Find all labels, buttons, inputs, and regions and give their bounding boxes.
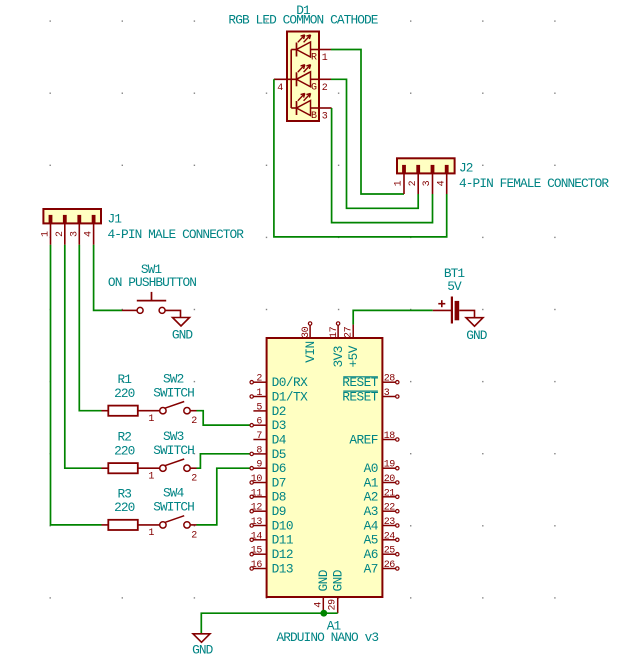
wire BT1 to GND (459, 310, 474, 317)
svg-text:ARDUINO NANO v3: ARDUINO NANO v3 (276, 630, 378, 645)
resistor R2 body (108, 463, 138, 473)
svg-text:5V: 5V (447, 279, 462, 294)
switch SW2 symbol (148, 402, 197, 428)
svg-text:22: 22 (384, 503, 396, 514)
MCU A1 pin 16 (D13) left side (250, 560, 293, 576)
GND label bottom left (192, 642, 214, 657)
svg-text:A4: A4 (364, 518, 379, 533)
battery BT1 symbol (433, 297, 460, 324)
svg-text:2: 2 (408, 180, 419, 186)
connector J1 pin 2 (55, 215, 67, 245)
svg-text:D10: D10 (272, 518, 293, 533)
MCU A1 body (267, 338, 383, 597)
MCU A1 pin 4 (GND) bottom (313, 569, 331, 613)
MCU A1 pin 6 (D3) left side (250, 417, 286, 433)
switch SW1 reference label (141, 262, 163, 277)
svg-text:D1/TX: D1/TX (272, 389, 309, 404)
svg-text:A0: A0 (364, 461, 378, 476)
ground symbol below BT1 (466, 318, 483, 327)
resistor R2 reference label (118, 430, 132, 445)
connector J2 pin 3 (422, 165, 434, 194)
svg-text:20: 20 (384, 474, 396, 485)
connector J2 value label (459, 176, 609, 191)
resistor R1 body (108, 406, 138, 416)
MCU A1 pin 30 (VIN) top (301, 322, 318, 363)
wire SW2 to A1 D3 (197, 411, 250, 425)
MCU A1 pin 20 (A1) right side (364, 474, 399, 490)
svg-text:4: 4 (84, 231, 95, 237)
connector J1 pin 4 (84, 215, 96, 245)
ground symbol bottom left (193, 634, 210, 643)
LED D1 common cathode bus (290, 50, 292, 109)
wire SW3 to A1 D5 (197, 454, 250, 468)
svg-text:27: 27 (343, 326, 354, 338)
connector J1 pin 1 (41, 215, 53, 245)
svg-text:7: 7 (256, 431, 262, 442)
switch SW1 value label (108, 275, 196, 290)
svg-text:24: 24 (384, 531, 396, 542)
MCU A1 value label (276, 630, 378, 645)
svg-text:D0/RX: D0/RX (272, 375, 309, 390)
svg-text:ON PUSHBUTTON: ON PUSHBUTTON (108, 275, 196, 290)
wire D1 pin2 to J2 pin2 (331, 79, 418, 208)
svg-text:30: 30 (301, 326, 312, 338)
svg-text:23: 23 (384, 517, 396, 528)
LED D1 body (287, 32, 319, 122)
svg-text:D9: D9 (272, 504, 286, 519)
svg-text:4: 4 (277, 83, 283, 94)
svg-text:GND: GND (331, 569, 346, 591)
connector J2 pin 4 (436, 165, 448, 194)
resistor R1 value label 220 (114, 386, 135, 401)
ground symbol below SW1 (173, 318, 190, 327)
wire SW4 to A1 D6 (197, 468, 250, 525)
GND label below BT1 (466, 328, 488, 343)
resistor R1 reference label (118, 372, 133, 387)
wire D1 pin3 to J2 pin3 (332, 108, 433, 223)
svg-text:1: 1 (394, 180, 405, 186)
LED D1 pin 2 (319, 79, 331, 94)
svg-text:1: 1 (148, 414, 154, 425)
MCU A1 pin 12 (D9) left side (250, 503, 286, 519)
svg-text:1: 1 (148, 472, 154, 483)
svg-text:11: 11 (251, 488, 263, 499)
svg-text:3: 3 (422, 180, 433, 186)
battery BT1 reference label (444, 266, 466, 281)
MCU A1 pin 15 (D12) left side (250, 546, 293, 562)
wire D1 pin4 to J2 pin4 (274, 79, 447, 237)
MCU A1 pin 1 (D1/TX) left side (250, 388, 308, 404)
LED D1 value label (228, 13, 378, 28)
LED D1 pin 4 (274, 79, 297, 94)
svg-text:D11: D11 (272, 533, 294, 548)
MCU A1 pin 21 (A2) right side (364, 488, 399, 504)
svg-text:VIN: VIN (303, 341, 318, 362)
MCU A1 pin 10 (D7) left side (250, 474, 286, 490)
svg-text:5: 5 (256, 402, 262, 413)
MCU A1 pin 3 (RESET) right side (342, 388, 399, 404)
svg-text:D2: D2 (272, 404, 286, 419)
svg-text:8: 8 (256, 445, 262, 456)
MCU A1 pin 27 (+5V) top (343, 325, 361, 368)
svg-text:GND: GND (172, 328, 194, 343)
svg-text:2: 2 (191, 474, 197, 485)
switch SW3 symbol (148, 459, 197, 485)
svg-text:220: 220 (114, 443, 135, 458)
resistor R3 body (108, 520, 138, 530)
svg-text:AREF: AREF (349, 432, 378, 447)
svg-text:SWITCH: SWITCH (153, 386, 194, 401)
MCU A1 pin 11 (D8) left side (250, 488, 286, 504)
svg-text:1: 1 (148, 528, 154, 539)
switch SW3 reference label (163, 429, 184, 444)
svg-text:GND: GND (316, 569, 331, 591)
connector J1 body (43, 209, 101, 223)
switch SW3 value label SWITCH (153, 443, 194, 458)
wire J1 pin2 to R2 (65, 245, 102, 468)
LED D1 pin 3 (319, 108, 332, 123)
svg-text:25: 25 (384, 546, 396, 557)
GND label below SW1 (172, 328, 194, 343)
svg-text:A3: A3 (364, 504, 378, 519)
svg-text:3: 3 (322, 112, 328, 123)
MCU A1 pin 28 (RESET) right side (342, 374, 399, 390)
LED D1 element R (top diode) (291, 35, 319, 64)
svg-text:A2: A2 (364, 490, 378, 505)
wire J1 pin4 to SW1 (94, 245, 122, 311)
svg-text:14: 14 (251, 531, 263, 542)
svg-text:3: 3 (384, 388, 390, 399)
svg-text:GND: GND (192, 642, 214, 657)
svg-text:28: 28 (384, 374, 396, 385)
svg-text:A5: A5 (364, 533, 378, 548)
svg-text:16: 16 (251, 560, 263, 571)
connector J2 reference label (459, 161, 473, 176)
svg-text:19: 19 (384, 460, 396, 471)
connector J2 pin 1 (394, 165, 406, 194)
svg-text:D8: D8 (272, 490, 286, 505)
svg-text:SW2: SW2 (163, 372, 184, 387)
svg-text:13: 13 (251, 517, 263, 528)
connector J1 value label (108, 227, 245, 242)
connector J2 body (397, 158, 455, 173)
MCU A1 pin 8 (D5) left side (250, 445, 286, 461)
MCU A1 pin 26 (A7) right side (364, 560, 399, 576)
svg-text:A1: A1 (364, 475, 379, 490)
svg-text:3V3: 3V3 (331, 346, 346, 367)
LED D1 element G (middle diode) (297, 65, 320, 94)
MCU A1 pin 5 (D2) left side (253, 402, 285, 418)
svg-text:2: 2 (55, 231, 66, 237)
svg-text:4-PIN MALE CONNECTOR: 4-PIN MALE CONNECTOR (108, 227, 245, 242)
resistor R3 leads (102, 524, 160, 526)
svg-text:D4: D4 (272, 432, 287, 447)
svg-text:+5V: +5V (346, 345, 361, 367)
svg-text:10: 10 (251, 474, 263, 485)
svg-text:B: B (311, 111, 317, 122)
svg-text:SW3: SW3 (163, 429, 184, 444)
wire D1 pin1 to J2 pin1 (331, 50, 404, 195)
MCU A1 pin 17 (3V3) top (329, 322, 346, 368)
svg-text:2: 2 (191, 530, 197, 541)
svg-text:G: G (311, 82, 317, 93)
MCU A1 pin 23 (A4) right side (364, 517, 399, 533)
svg-text:RGB LED COMMON CATHODE: RGB LED COMMON CATHODE (228, 13, 378, 28)
wire SW1 to GND (165, 310, 180, 317)
junction dot at A1 pin 4 (320, 610, 327, 617)
MCU A1 pin 25 (A6) right side (364, 546, 399, 562)
svg-text:D3: D3 (272, 418, 286, 433)
svg-text:2: 2 (191, 416, 197, 427)
svg-text:J1: J1 (108, 212, 123, 227)
resistor R1 leads (102, 410, 160, 412)
svg-text:12: 12 (251, 503, 263, 514)
svg-text:17: 17 (329, 326, 340, 338)
resistor R2 leads (102, 467, 160, 469)
svg-text:D5: D5 (272, 447, 286, 462)
svg-text:26: 26 (384, 560, 396, 571)
svg-text:SWITCH: SWITCH (153, 443, 194, 458)
MCU A1 pin 22 (A3) right side (364, 503, 399, 519)
svg-text:R: R (311, 53, 317, 64)
resistor R3 reference label (118, 486, 132, 501)
battery BT1 value label 5V (447, 279, 462, 294)
svg-text:18: 18 (384, 431, 396, 442)
svg-text:3: 3 (69, 231, 80, 237)
switch SW1 pushbutton symbol (122, 292, 166, 314)
svg-text:1: 1 (322, 53, 328, 64)
svg-text:2: 2 (322, 83, 328, 94)
svg-text:SW4: SW4 (163, 486, 185, 501)
svg-text:A6: A6 (364, 547, 378, 562)
MCU A1 pin 29 (GND) bottom (327, 569, 345, 613)
MCU A1 pin 2 (D0/RX) left side (250, 374, 308, 390)
wire A1 GND pins to ground (201, 613, 337, 634)
svg-text:9: 9 (256, 460, 262, 471)
svg-text:2: 2 (256, 374, 262, 385)
switch SW4 value label SWITCH (153, 500, 194, 515)
MCU A1 pin 14 (D11) left side (250, 531, 294, 547)
svg-text:D6: D6 (272, 461, 286, 476)
wire J1 pin1 to R3 (51, 245, 102, 525)
svg-text:D12: D12 (272, 547, 293, 562)
MCU A1 pin 13 (D10) left side (250, 517, 293, 533)
resistor R3 value label 220 (114, 500, 135, 515)
svg-text:21: 21 (384, 488, 396, 499)
svg-text:6: 6 (256, 417, 262, 428)
svg-text:D7: D7 (272, 475, 286, 490)
LED D1 element B (bottom diode) (291, 93, 319, 122)
svg-text:SWITCH: SWITCH (153, 500, 194, 515)
LED D1 pin 1 (319, 50, 331, 65)
svg-text:GND: GND (466, 328, 488, 343)
connector J1 pin 3 (69, 215, 81, 245)
MCU A1 pin 7 (D4) left side (253, 431, 286, 447)
svg-text:29: 29 (327, 599, 338, 611)
svg-text:220: 220 (114, 500, 135, 515)
svg-text:1: 1 (41, 231, 52, 237)
svg-text:1: 1 (256, 388, 262, 399)
wire J1 pin3 to R1 (79, 245, 101, 411)
svg-text:4-PIN FEMALE CONNECTOR: 4-PIN FEMALE CONNECTOR (459, 176, 609, 191)
connector J2 pin 2 (408, 165, 420, 194)
svg-text:J2: J2 (459, 161, 473, 176)
MCU A1 pin 9 (D6) left side (250, 460, 286, 476)
svg-text:D13: D13 (272, 561, 293, 576)
svg-text:A7: A7 (364, 561, 378, 576)
MCU A1 pin 24 (A5) right side (364, 531, 399, 547)
svg-text:220: 220 (114, 386, 135, 401)
switch SW2 value label SWITCH (153, 386, 194, 401)
switch SW4 reference label (163, 486, 185, 501)
svg-text:4: 4 (436, 180, 447, 186)
svg-text:4: 4 (313, 602, 324, 608)
connector J1 reference label (108, 212, 123, 227)
MCU A1 pin 18 (AREF) right side (349, 431, 399, 447)
LED D1 reference label (296, 3, 311, 18)
MCU A1 reference label (327, 618, 342, 633)
MCU A1 pin 19 (A0) right side (364, 460, 399, 476)
svg-text:15: 15 (251, 546, 263, 557)
switch SW4 symbol (148, 516, 197, 542)
wire +5V pin to BT1 plus (353, 310, 433, 324)
resistor R2 value label 220 (114, 443, 135, 458)
switch SW2 reference label (163, 372, 184, 387)
